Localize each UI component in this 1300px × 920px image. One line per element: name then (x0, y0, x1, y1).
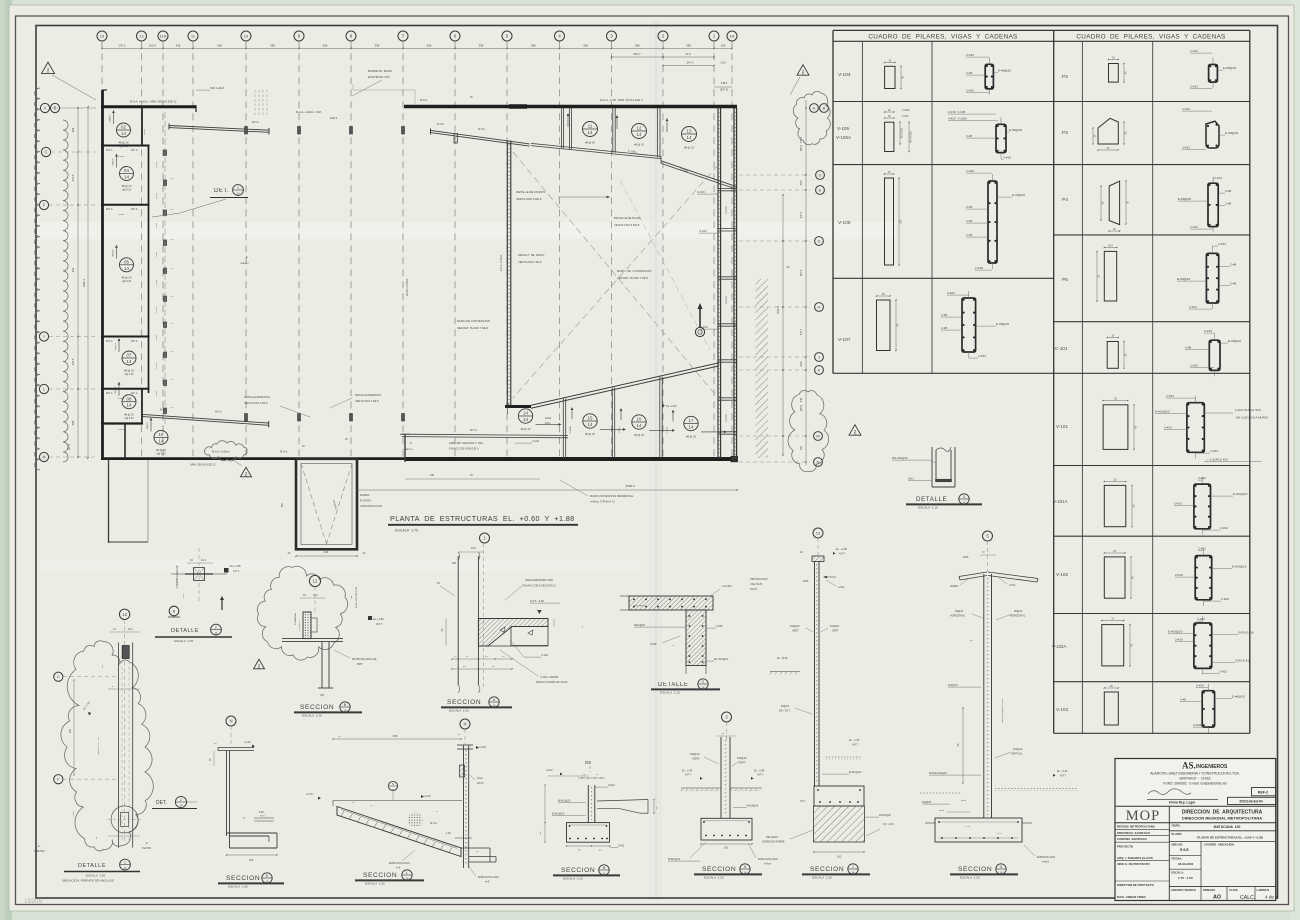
svg-text:SIM. EJE 8: SIM. EJE 8 (210, 86, 224, 90)
svg-text:2-#10: 2-#10 (1164, 426, 1172, 430)
svg-text:2-#22: 2-#22 (947, 291, 955, 295)
callout circles left cells (117, 123, 131, 137)
svg-text:2-#8: 2-#8 (966, 219, 972, 223)
svg-text:FUTURA: FUTURA (360, 499, 371, 503)
svg-text:ESCALA 1:25: ESCALA 1:25 (449, 709, 469, 713)
svg-text:FONO: 2842082 E-mail: rso@en: FONO: 2842082 E-mail: rso@entelchile.net (1163, 782, 1226, 786)
svg-text:ADJUNTO TECNICO: ADJUNTO TECNICO (1171, 888, 1196, 892)
svg-text:EJE 9: EJE 9 (330, 116, 338, 120)
svg-text:#10@20: #10@20 (948, 684, 958, 687)
svg-text:#8 @ 20: #8 @ 20 (585, 432, 595, 436)
svg-text:C-101: C-101 (156, 222, 158, 229)
svg-text:V-101A ARMAR: V-101A ARMAR (540, 676, 559, 679)
svg-text:2-#22: 2-#22 (1218, 242, 1226, 246)
svg-text:DETALLE PEDESTAL: DETALLE PEDESTAL (244, 395, 271, 399)
svg-text:P-100a: P-100a (628, 149, 637, 154)
svg-text:368: 368 (427, 44, 432, 48)
svg-text:14: 14 (127, 403, 132, 408)
svg-text:E-#10@20: E-#10@20 (1155, 410, 1170, 414)
svg-text:PLANO:: PLANO: (1172, 832, 1183, 836)
svg-text:C-101: C-101 (156, 279, 158, 286)
right strip cell dividers (718, 187, 737, 189)
existing wall boundary step (353, 89, 415, 91)
svg-text:2#12: 2#12 (908, 477, 914, 481)
svg-text:PLANO 2 DE 8 SECCION-C: PLANO 2 DE 8 SECCION-C (523, 584, 556, 588)
svg-text:V-100: V-100 (697, 190, 705, 194)
svg-text:+ 1-SUPLE #22: + 1-SUPLE #22 (1207, 458, 1228, 462)
svg-text:M.H.A. e=20cm ARM. SEGUN EJE: M.H.A. e=20cm ARM. SEGUN EJE 12 (130, 100, 177, 104)
svg-text:#5/8": #5/8" (183, 593, 185, 598)
svg-text:E-#8@20: E-#8@20 (1178, 197, 1191, 201)
svg-text:[507.3]: [507.3] (720, 88, 728, 92)
row grid circles left (40, 103, 49, 112)
svg-text:DETALLE DE MUROS: DETALLE DE MUROS (516, 190, 545, 194)
svg-text:04: 04 (124, 168, 129, 173)
svg-text:M.H.A. e=30 ARM IGUAL EJE 3: M.H.A. e=30 ARM IGUAL EJE 3 (600, 98, 643, 102)
svg-text:2#10: 2#10 (961, 800, 967, 802)
svg-text:467.5: 467.5 (800, 269, 803, 276)
svg-text:34.4: 34.4 (128, 628, 133, 631)
svg-text:EL. -1.48: EL. -1.48 (849, 739, 860, 742)
svg-text:2-#8: 2-#8 (1225, 202, 1231, 206)
table: CUADRO DE PILARES right (1054, 29, 1250, 31)
svg-text:V-101A: V-101A (725, 414, 728, 422)
top slanted thin beam left-mid (431, 130, 530, 144)
svg-text:2-#12: 2-#12 (1190, 49, 1198, 53)
svg-text:368: 368 (531, 44, 536, 48)
svg-text:2-#22: 2-#22 (1219, 670, 1227, 674)
svg-text:ESCALA 1:50: ESCALA 1:50 (86, 873, 106, 877)
svg-text:2-#22: 2-#22 (978, 354, 986, 358)
svg-text:P5: P5 (1062, 277, 1068, 283)
svg-text:#12@20: #12@20 (830, 625, 840, 628)
svg-text:H: H (744, 865, 747, 869)
svg-text:A: A (44, 106, 47, 111)
svg-text:#10@20: #10@20 (690, 753, 700, 756)
svg-text:14: 14 (121, 131, 126, 136)
svg-text:14: 14 (124, 266, 129, 271)
svg-text:LOSA: LOSA (545, 417, 552, 420)
svg-text:2-#22: 2-#22 (1166, 394, 1174, 398)
svg-text:SANTIAGO - CHILE: SANTIAGO - CHILE (1179, 777, 1211, 781)
retaining wall hatch strip right (756, 279, 769, 458)
svg-text:2-#8: 2-#8 (1180, 698, 1186, 702)
svg-text:VER PLANO 6 DE 8: VER PLANO 6 DE 8 (518, 260, 542, 264)
svg-text:14: 14 (523, 417, 528, 422)
svg-text:M.#10@20: M.#10@20 (558, 800, 571, 803)
svg-text:M.#10@20: M.#10@20 (668, 858, 681, 861)
walls under sloped beam (562, 399, 564, 459)
svg-text:B: B (54, 106, 57, 111)
svg-text:E-#8@20: E-#8@20 (1223, 66, 1236, 70)
svg-text:2-#12: 2-#12 (1214, 176, 1222, 180)
svg-text:100: 100 (724, 847, 729, 850)
svg-text:368: 368 (583, 44, 588, 48)
svg-text:13: 13 (687, 129, 692, 134)
svg-text:13: 13 (816, 530, 821, 535)
svg-text:#8@20: #8@20 (1014, 610, 1023, 613)
svg-text:V-101A: V-101A (725, 296, 728, 304)
svg-text:2-#22: 2-#22 (1220, 526, 1228, 530)
detail 2: anchor plan (198, 548, 200, 602)
svg-text:ARM. SEGUN EJE 13: ARM. SEGUN EJE 13 (190, 463, 216, 467)
svg-text:D#10@20: D#10@20 (634, 624, 645, 627)
svg-text:2-#8: 2-#8 (966, 205, 972, 209)
svg-text:M.H.A.: M.H.A. (437, 123, 445, 126)
svg-text:TEATRO: TEATRO (142, 847, 151, 850)
svg-text:EL.+1.88: EL.+1.88 (230, 564, 241, 568)
svg-text:E: E (246, 255, 248, 259)
svg-text:e@ 8 20: e@ 8 20 (122, 280, 132, 283)
svg-text:ESCALA 1:10: ESCALA 1:10 (660, 691, 680, 695)
section H: T footing wall (722, 712, 732, 722)
svg-text:SECCION: SECCION (363, 872, 397, 879)
svg-text:ESCALA 1:20: ESCALA 1:20 (812, 876, 832, 880)
svg-text:2-#22: 2-#22 (1197, 617, 1205, 621)
svg-text:V-101: V-101 (666, 426, 668, 432)
svg-text:P. MADERA: P. MADERA (294, 613, 297, 625)
svg-text:N.P.T.: N.P.T. (852, 744, 859, 747)
left dimension lines (77, 107, 79, 458)
svg-text:368: 368 (323, 44, 328, 48)
svg-text:7.5 CONS.T: 7.5 CONS.T (299, 620, 301, 632)
svg-text:14: 14 (637, 132, 642, 137)
svg-text:34.8: 34.8 (800, 361, 803, 366)
svg-text:# ESP. # 10 - 750: # ESP. # 10 - 750 (98, 736, 100, 755)
svg-text:E-#8@20: E-#8@20 (1012, 193, 1025, 197)
svg-text:R.S.R.: R.S.R. (1180, 848, 1190, 852)
svg-text:2-#8: 2-#8 (1225, 189, 1231, 193)
revision triangle top-left (42, 62, 55, 73)
svg-text:SEGUN CUADRO DE VIGAS: SEGUN CUADRO DE VIGAS (536, 681, 568, 684)
svg-text:3-#18: 3-#18 (1003, 156, 1011, 160)
svg-text:25x70: 25x70 (750, 587, 758, 591)
svg-text:50 V-105A: 50 V-105A (910, 131, 913, 143)
svg-text:23.81: 23.81 (73, 810, 75, 816)
svg-text:#8 @ 20: #8 @ 20 (122, 184, 132, 188)
svg-text:#8 @ 20: #8 @ 20 (119, 141, 129, 145)
svg-text:N: N (229, 719, 232, 724)
svg-text:160: 160 (837, 855, 842, 859)
svg-text:14: 14 (689, 425, 694, 430)
svg-text:2-#8: 2-#8 (941, 326, 947, 330)
svg-text:#8 @ 20: #8 @ 20 (686, 435, 696, 439)
svg-text:AS.: AS. (1182, 761, 1196, 771)
svg-text:PARA ARMADURA VER: PARA ARMADURA VER (525, 578, 553, 582)
svg-text:EL. -2.48: EL. -2.48 (682, 769, 693, 772)
svg-text:J: J (852, 865, 854, 869)
svg-text:V-104: V-104 (118, 156, 125, 158)
bottom slab beam at y435 (402, 434, 568, 435)
svg-text:170.5: 170.5 (118, 44, 125, 48)
svg-text:#8 @ 20: #8 @ 20 (684, 145, 694, 149)
ramp foot (461, 847, 490, 849)
svg-text:ESCALA 1:10: ESCALA 1:10 (918, 506, 938, 510)
svg-text:UBICACION PERNOS DE ANCLAJE: UBICACION PERNOS DE ANCLAJE (62, 879, 114, 883)
section B: tree cloud anchor detail (257, 566, 347, 660)
title block (1115, 759, 1276, 901)
svg-text:M.H.A.: M.H.A. (106, 149, 113, 152)
svg-text:N.P.T.: N.P.T. (233, 570, 240, 573)
svg-text:14: 14 (687, 135, 692, 140)
svg-text:M: M (816, 433, 819, 438)
svg-text:FIRMADO: FIRMADO (1203, 888, 1215, 892)
revision cloud left margin (35, 88, 40, 470)
svg-text:1:75 : 1:50: 1:75 : 1:50 (1178, 876, 1193, 880)
row grid circles right (810, 104, 819, 113)
svg-text:EMPLANTILLADO: EMPLANTILLADO (758, 858, 778, 861)
svg-text:11A: 11A (160, 33, 167, 38)
svg-text:HORIZONTAL: HORIZONTAL (1010, 615, 1026, 618)
svg-text:PLANTA DE ESTRUCTURAS EL.: PLANTA DE ESTRUCTURAS EL. +0.60 Y +1.88 (390, 514, 575, 523)
svg-text:#8 @ 20: #8 @ 20 (122, 275, 132, 279)
svg-text:CUADRO UBICACION: CUADRO UBICACION (1204, 843, 1234, 847)
svg-text:12.3: 12.3 (685, 52, 691, 56)
svg-text:E: E (819, 187, 822, 192)
svg-text:E-#8@20: E-#8@20 (998, 69, 1011, 73)
svg-text:VERTICAL: VERTICAL (1011, 753, 1023, 756)
svg-text:E-#10@20: E-#10@20 (1233, 492, 1248, 496)
detail 4: corner beam plan (629, 596, 713, 610)
svg-text:N.P.T.: N.P.T. (757, 774, 764, 777)
cell divider walls (101, 145, 150, 147)
section L: ramp (460, 719, 470, 729)
svg-text:DETALLE: DETALLE (916, 496, 947, 503)
svg-text:CUADRO DE PILARES, VIGAS Y: CUADRO DE PILARES, VIGAS Y CADENAS (868, 34, 1017, 41)
main plan: top wall right segment (404, 105, 737, 109)
svg-text:1: 1 (124, 861, 126, 865)
svg-text:VER PLANO 6 DE 8: VER PLANO 6 DE 8 (614, 223, 640, 227)
svg-text:14: 14 (523, 411, 528, 416)
section A: column with slab (480, 533, 490, 543)
svg-text:2-#8: 2-#8 (1185, 346, 1191, 350)
svg-text:DETALLE PEDESTAL: DETALLE PEDESTAL (355, 393, 382, 397)
svg-text:190.5: 190.5 (149, 44, 156, 48)
svg-text:#8@20: #8@20 (115, 342, 117, 350)
svg-text:2#12: 2#12 (800, 801, 806, 803)
section G: tall retaining wall (983, 531, 993, 541)
svg-text:MOP: MOP (1126, 808, 1160, 824)
svg-text:2-#22: 2-#22 (1198, 547, 1206, 551)
svg-text:E-#8@20: E-#8@20 (1225, 131, 1238, 135)
svg-text:N.P.T.: N.P.T. (260, 816, 266, 818)
svg-text:DETALLE: DETALLE (658, 682, 688, 688)
svg-text:C-101: C-101 (156, 251, 158, 258)
svg-text:M.H.A. e=25cm: M.H.A. e=25cm (500, 255, 503, 272)
svg-text:488: 488 (71, 420, 75, 425)
svg-text:14: 14 (127, 359, 132, 364)
svg-text:148.8: 148.8 (721, 81, 728, 85)
svg-text:NE Y EXT.: NE Y EXT. (779, 710, 791, 713)
svg-text:4506.9: 4506.9 (625, 484, 635, 488)
svg-text:SUPLE #16: SUPLE #16 (1235, 659, 1251, 663)
svg-text:446: 446 (800, 397, 803, 402)
svg-text:DIRECTOR DE PROYECTO: DIRECTOR DE PROYECTO (1117, 883, 1155, 887)
svg-text:SECCION: SECCION (561, 867, 595, 874)
svg-text:08: 08 (127, 396, 132, 401)
svg-text:V-102: V-102 (1056, 572, 1068, 577)
svg-text:#10@20: #10@20 (922, 801, 932, 804)
long dimension under plan (357, 489, 737, 491)
svg-text:e=30cm (TIP.)[H.A.C.]: e=30cm (TIP.)[H.A.C.] (590, 500, 615, 503)
svg-text:368: 368 (375, 44, 380, 48)
svg-text:N.P.T.: N.P.T. (376, 623, 383, 626)
svg-text:DETALLT DE MURO: DETALLT DE MURO (518, 253, 544, 257)
interior wall on grid 5 (506, 141, 508, 407)
svg-text:2-#18: 2-#18 (966, 169, 974, 173)
svg-text:40 V-105: 40 V-105 (901, 127, 904, 138)
svg-text:M.H.A.: M.H.A. (131, 208, 138, 211)
svg-text:M.#10@20: M.#10@20 (849, 771, 862, 774)
svg-text:C-101: C-101 (156, 390, 158, 397)
svg-text:2#18: 2#18 (803, 580, 809, 583)
svg-text:e=5: e=5 (485, 881, 490, 884)
svg-text:JEFE E. DE PROYECTO: JEFE E. DE PROYECTO (1117, 862, 1150, 866)
svg-text:+0.62: +0.62 (546, 768, 553, 772)
svg-text:SECCION: SECCION (810, 866, 844, 873)
svg-text:VIGA: VIGA (477, 777, 483, 780)
svg-text:370.1: 370.1 (800, 211, 803, 218)
svg-text:OBRA:: OBRA: (1172, 824, 1181, 828)
svg-text:V-102: V-102 (541, 653, 548, 657)
svg-text:VIGA SUP.: VIGA SUP. (750, 582, 763, 586)
svg-text:INCL.: INCL. (545, 422, 551, 425)
svg-text:ESCALA 1:75: ESCALA 1:75 (395, 529, 418, 533)
svg-text:2-#16: 2-#16 (966, 89, 974, 93)
svg-text:372.7: 372.7 (800, 328, 803, 335)
svg-text:346: 346 (324, 550, 329, 554)
svg-text:E-#8@20: E-#8@20 (1232, 695, 1245, 699)
svg-text:M.H.A.: M.H.A. (131, 149, 138, 152)
svg-text:RELLENO: RELLENO (766, 836, 778, 839)
svg-text:2-PERNOS ANCLAJE: 2-PERNOS ANCLAJE (176, 565, 179, 588)
svg-text:EMPASTILLADO: EMPASTILLADO (1037, 856, 1055, 859)
svg-text:V-107: V-107 (838, 337, 851, 343)
svg-text:368: 368 (635, 44, 640, 48)
svg-text:#12@20: #12@20 (1013, 748, 1023, 751)
svg-text:2#12: 2#12 (997, 833, 1003, 835)
pilasters from top wall to sloped beams (561, 108, 563, 148)
svg-text:SECCION: SECCION (226, 875, 260, 882)
svg-text:E.: E. (38, 845, 41, 848)
svg-text:PETRO DE ANCLAJE: PETRO DE ANCLAJE (352, 658, 377, 661)
svg-text:11: 11 (588, 124, 593, 129)
svg-text:K: K (818, 367, 821, 372)
svg-text:12: 12 (313, 579, 318, 584)
svg-text:BAL.#10@20: BAL.#10@20 (892, 456, 908, 460)
svg-text:630: 630 (281, 502, 284, 507)
svg-text:DETALLE DE PILAR: DETALLE DE PILAR (614, 216, 641, 220)
svg-text:MURO. e=75cm: MURO. e=75cm (406, 279, 409, 296)
svg-text:PLANTA DE ESTRUCTURAS EL. +0.6: PLANTA DE ESTRUCTURAS EL. +0.60 Y +1.88 (1197, 835, 1263, 839)
svg-text:V-104: V-104 (144, 129, 146, 135)
svg-text:7: 7 (402, 34, 405, 39)
svg-text:TEATRO: TEATRO (240, 262, 249, 265)
bottom sloped beam (ramp edge) (531, 363, 719, 405)
svg-text:+0.15: +0.15 (306, 792, 313, 796)
svg-text:VIGA Y PROTECCION: VIGA Y PROTECCION (355, 586, 358, 608)
svg-text:C: C (57, 674, 60, 679)
svg-text:#8 @ 20: #8 @ 20 (521, 427, 531, 431)
svg-text:B: B (173, 608, 176, 613)
svg-text:M.H.A.: M.H.A. (131, 340, 138, 343)
svg-text:EL. -3.48: EL. -3.48 (1057, 770, 1068, 773)
svg-text:ALARCON, SAEZ INGENIERIA Y CON: ALARCON, SAEZ INGENIERIA Y CONSTRUCCION … (1150, 772, 1240, 776)
column markers on grid (top row) (245, 127, 248, 135)
svg-text:2-#8: 2-#8 (966, 71, 972, 75)
svg-text:#8@20: #8@20 (147, 422, 149, 430)
svg-text:368: 368 (686, 44, 691, 48)
svg-text:Firma Rep. Legal: Firma Rep. Legal (1169, 800, 1195, 804)
column grid circles and dashed grid lines (97, 31, 107, 41)
svg-text:130: 130 (900, 219, 903, 224)
pilaster strip line (164, 112, 166, 425)
svg-text:AO: AO (1213, 895, 1221, 901)
svg-text:ESCALA 1:25: ESCALA 1:25 (302, 714, 322, 718)
svg-text:M.H.A.: M.H.A. (215, 411, 223, 414)
svg-text:ESCALA 1:50: ESCALA 1:50 (365, 882, 385, 886)
svg-text:378.5: 378.5 (71, 358, 75, 365)
svg-text:L: L (406, 871, 408, 875)
svg-text:M.H.A. e=20cm SIM.: M.H.A. e=20cm SIM. (296, 110, 322, 114)
north arrow symbol (699, 306, 701, 327)
svg-text:C: C (44, 150, 47, 155)
svg-text:#40: #40 (452, 562, 457, 565)
svg-text:V-101A: V-101A (725, 206, 728, 214)
svg-text:CONSTRUCCION: CONSTRUCCION (360, 504, 382, 508)
svg-text:2#18: 2#18 (963, 556, 969, 559)
svg-text:2987.1: 2987.1 (82, 278, 86, 287)
svg-text:N.P.T.: N.P.T. (685, 774, 692, 777)
detail 3: U channel (931, 447, 933, 487)
svg-text:3-#22 V-105A: 3-#22 V-105A (948, 117, 967, 121)
svg-text:2-#10: 2-#10 (1174, 502, 1182, 506)
svg-text:14: 14 (159, 438, 164, 443)
section J: tall wall with relleno (813, 528, 823, 538)
svg-text:I: I (43, 334, 44, 339)
svg-text:10: 10 (244, 33, 249, 38)
bottom main wall (101, 457, 405, 460)
svg-text:2: 2 (662, 34, 665, 39)
svg-text:2-#22: 2-#22 (1210, 449, 1218, 453)
svg-text:368: 368 (176, 44, 181, 48)
svg-text:PROVINCIA SANTIAGO: PROVINCIA SANTIAGO (1117, 831, 1151, 835)
svg-text:N: N (42, 455, 45, 460)
svg-text:2: 2 (215, 626, 217, 630)
svg-text:#8@20: #8@20 (113, 249, 115, 257)
svg-text:D: D (819, 172, 822, 177)
svg-text:4-#18: 4-#18 (650, 643, 657, 646)
section K: L wall (226, 716, 236, 726)
svg-text:2-#18: 2-#18 (966, 53, 974, 57)
svg-text:E-#8@20: E-#8@20 (1009, 128, 1022, 132)
svg-text:150: 150 (800, 445, 803, 450)
svg-text:347.3: 347.3 (687, 61, 694, 65)
svg-text:ESCALA 1:25: ESCALA 1:25 (563, 877, 583, 881)
svg-text:635: 635 (393, 734, 398, 738)
svg-text:ARQ. I. TABARES EL-KUS: ARQ. I. TABARES EL-KUS (1117, 856, 1153, 860)
svg-text:SECCION: SECCION (958, 866, 992, 873)
svg-text:553.7: 553.7 (634, 52, 641, 56)
right wall double with hatch (717, 108, 719, 458)
svg-text:VERT.: VERT. (739, 762, 746, 765)
interior wall bottom stub (505, 405, 531, 408)
svg-text:LOSA: LOSA (838, 586, 845, 589)
top slanted beam left (169, 126, 269, 131)
svg-text:15909: 15909 (24, 898, 42, 905)
svg-text:C-101: C-101 (156, 192, 158, 199)
svg-text:2-#16: 2-#16 (1193, 723, 1201, 727)
